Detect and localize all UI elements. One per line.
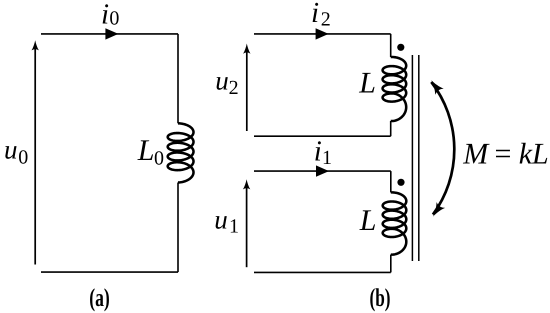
current arrowhead i0 (105, 28, 118, 39)
coupling arc arrowhead bottom (433, 202, 445, 217)
svg-text:k: k (519, 138, 533, 171)
svg-text:L: L (358, 67, 376, 100)
wire: circuit (b) lower loop right lower (390, 255, 392, 273)
label L0 (137, 134, 164, 170)
label i2 (311, 0, 331, 31)
voltage arrow u1 line (246, 187, 248, 267)
wire: circuit (b) lower loop bottom (254, 271, 391, 273)
polarity dot (upper coil) (397, 44, 404, 51)
voltage arrow u0 line (34, 48, 36, 265)
label M = kL (462, 138, 548, 171)
voltage arrow u2 line (246, 51, 248, 131)
svg-text:=: = (495, 138, 512, 171)
label L (upper) (358, 67, 376, 100)
svg-text:u: u (214, 205, 228, 235)
wire: circuit (a) top (41, 33, 178, 35)
label u2 (215, 65, 238, 99)
current arrowhead i1 (316, 165, 329, 176)
coupling arc M=kL (431, 82, 454, 215)
svg-text:L: L (359, 204, 377, 237)
wire: circuit (b) lower loop top (254, 170, 391, 172)
svg-text:2: 2 (229, 77, 239, 99)
label u0 (4, 135, 28, 169)
wire: circuit (a) right lower (177, 183, 179, 273)
svg-text:M: M (462, 138, 490, 171)
transformer core line left (411, 55, 413, 261)
svg-text:i: i (101, 0, 109, 30)
voltage arrowhead u1 (243, 179, 250, 189)
svg-text:L: L (137, 134, 155, 167)
inductor L coil (upper) (383, 57, 407, 121)
svg-text:0: 0 (154, 148, 164, 170)
transformer core line right (418, 55, 420, 261)
label u1 (214, 205, 239, 238)
wire: circuit (a) right upper (177, 34, 179, 123)
label L (lower) (359, 204, 377, 237)
svg-text:i: i (311, 0, 319, 29)
wire: circuit (b) lower loop right upper (390, 171, 392, 192)
wire: circuit (b) upper loop right upper (390, 34, 392, 57)
current arrowhead i2 (316, 28, 329, 39)
svg-text:1: 1 (229, 216, 239, 238)
svg-text:L: L (531, 138, 549, 171)
label i0 (101, 0, 119, 30)
svg-text:u: u (4, 135, 18, 165)
wire: circuit (b) upper loop top (254, 33, 391, 35)
svg-text:(a): (a) (89, 283, 110, 312)
label i1 (314, 136, 332, 169)
wire: circuit (b) upper loop right lower (390, 121, 392, 136)
svg-text:1: 1 (322, 147, 332, 169)
svg-text:i: i (314, 136, 322, 168)
coupling arc arrowhead top (431, 80, 443, 94)
svg-text:u: u (215, 65, 229, 95)
inductor L0 coil (168, 123, 194, 182)
polarity dot (lower coil) (397, 179, 404, 186)
wire: circuit (b) upper loop bottom (254, 135, 391, 137)
voltage arrowhead u2 (243, 44, 250, 54)
svg-text:2: 2 (321, 9, 331, 31)
svg-text:0: 0 (109, 8, 119, 30)
svg-text:0: 0 (18, 147, 28, 169)
wire: circuit (a) bottom (41, 271, 178, 273)
voltage arrowhead u0 (32, 40, 39, 50)
inductor L coil (lower) (383, 192, 407, 254)
svg-text:(b): (b) (370, 283, 391, 312)
